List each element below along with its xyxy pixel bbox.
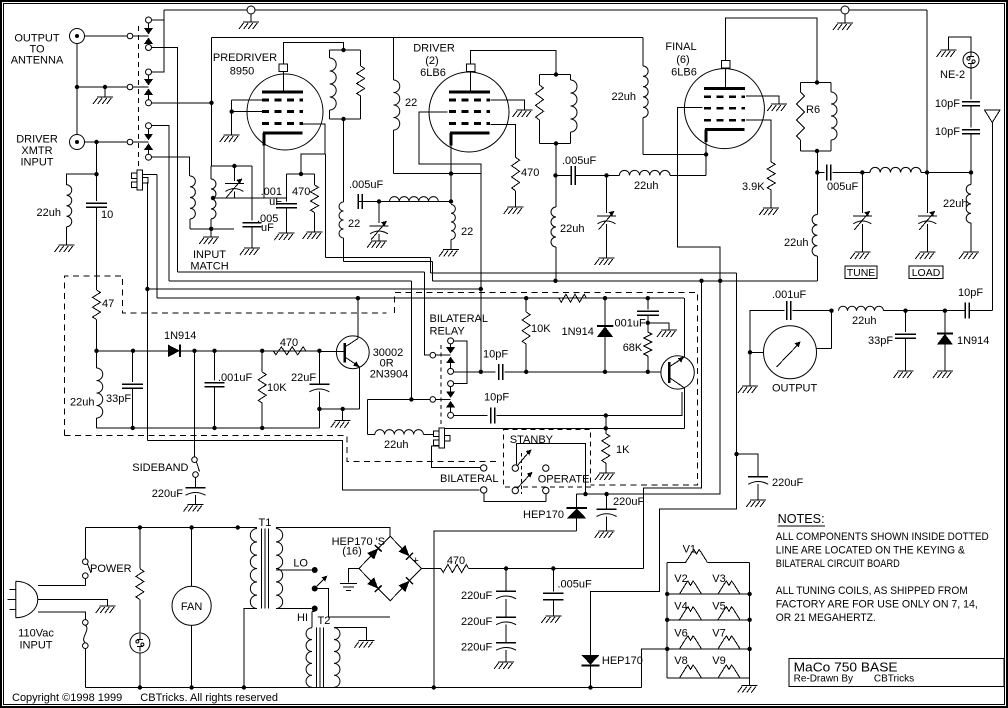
relay link dashed bbox=[440, 345, 442, 428]
relay contact set K1b bbox=[146, 69, 152, 75]
wire bus4 to relay wiper K2b bbox=[410, 281, 412, 399]
svg-text:22: 22 bbox=[461, 226, 473, 238]
wire Q2 emitter bbox=[684, 388, 686, 428]
resistor 10K keying bbox=[261, 351, 263, 372]
V row 3 rail bbox=[667, 648, 749, 650]
svg-text:.005uF: .005uF bbox=[562, 155, 597, 167]
wire predriver grid3 route bbox=[301, 124, 325, 174]
svg-text:OPERATE: OPERATE bbox=[538, 474, 590, 486]
capacitor .001uF keying bbox=[214, 351, 216, 381]
svg-text:1N914: 1N914 bbox=[957, 335, 989, 347]
ground 470 driver bbox=[504, 207, 524, 214]
inductor 22 predriver plate bbox=[339, 202, 344, 238]
bridge rectifier diamond bbox=[359, 536, 421, 601]
wire final grid3 to 3.9K bbox=[746, 120, 771, 162]
capacitor .005uF final cathode bbox=[556, 174, 571, 176]
wire antenna node to relay K1b bbox=[77, 86, 127, 88]
ground 220uF bias bbox=[595, 531, 615, 538]
inductor 22uh keying bbox=[96, 351, 98, 368]
svg-text:POWER: POWER bbox=[90, 563, 132, 575]
inductor 22uh antenna shunt bbox=[970, 173, 972, 185]
wire predriver grid pins to ground bbox=[232, 99, 264, 101]
wire final grid feed bbox=[678, 108, 721, 281]
svg-text:10pF: 10pF bbox=[958, 287, 983, 299]
wire driver plate feed bbox=[555, 144, 557, 208]
svg-text:220uF: 220uF bbox=[613, 496, 644, 508]
ground at top bus right bbox=[844, 14, 846, 23]
relay mechanical link dashed bbox=[137, 26, 139, 167]
wire K2b NO to 10pF bbox=[454, 415, 488, 417]
wire bridge plus to 470 bbox=[421, 568, 441, 570]
ground .001uF bbox=[274, 233, 294, 240]
svg-text:33pF: 33pF bbox=[106, 393, 131, 405]
wire meter plus bbox=[816, 347, 831, 349]
capacitor 220uF keying B+ bbox=[737, 454, 759, 476]
tube V final 6LB6 bbox=[684, 69, 764, 149]
capacitor .005uF driver cathode bbox=[358, 201, 451, 203]
switch standby pole b bbox=[512, 487, 518, 493]
wire keying B+ to HEP170-2 bbox=[591, 454, 737, 655]
svg-text:NE-2: NE-2 bbox=[940, 69, 965, 81]
wire emitter ground node bbox=[319, 408, 359, 410]
svg-text:.005uF: .005uF bbox=[349, 179, 384, 191]
coil V5 bbox=[718, 607, 740, 620]
wire K1a top to top bus bbox=[152, 19, 165, 21]
switch POWER bbox=[84, 528, 86, 559]
variable capacitor input match bbox=[233, 166, 235, 181]
svg-text:470: 470 bbox=[521, 167, 539, 179]
svg-text:LOAD: LOAD bbox=[912, 267, 941, 279]
ground 1N914 bbox=[933, 371, 953, 378]
variable capacitor TUNE bbox=[861, 173, 863, 214]
inductor tank coil bbox=[870, 167, 921, 172]
svg-text:6LB6: 6LB6 bbox=[671, 67, 697, 79]
inductor 22uh driver cathode bbox=[390, 197, 439, 202]
wire bilateral feed bbox=[147, 441, 479, 490]
node secondary tap bbox=[211, 196, 215, 200]
svg-text:1N914: 1N914 bbox=[164, 330, 196, 342]
wire driver plate cap to suppressor bbox=[471, 51, 557, 75]
wire B+ down to stanby bbox=[644, 281, 702, 569]
ground .005uF supply bbox=[541, 616, 561, 623]
svg-text:V1: V1 bbox=[683, 544, 696, 556]
svg-text:INPUT: INPUT bbox=[193, 249, 226, 261]
svg-text:470: 470 bbox=[447, 555, 465, 567]
capacitor 10pF K2a bbox=[499, 364, 503, 380]
wire NE-2 down bbox=[970, 68, 972, 100]
wire final bias down bbox=[577, 281, 721, 494]
ground TUNE bbox=[850, 252, 870, 259]
R6 parallel R/L bbox=[801, 82, 832, 84]
bridge diode BR bbox=[398, 581, 409, 592]
diode 1N914 clamp bbox=[604, 298, 606, 326]
coil V7 bbox=[718, 636, 740, 649]
V row 1 rail bbox=[667, 593, 749, 595]
wire heater drop to final bbox=[642, 38, 644, 67]
connector J2 driver xmtr input bbox=[70, 135, 85, 150]
capacitor 10pF K2b bbox=[491, 408, 495, 424]
wire antenna feed bbox=[991, 123, 993, 311]
diode HEP170 supply bbox=[582, 655, 600, 665]
power top rail bbox=[85, 527, 257, 529]
capacitor 33pF bbox=[905, 311, 907, 332]
transformer T2 bbox=[311, 612, 313, 628]
wire heater drop to driver bbox=[393, 38, 395, 81]
inductor 22uh final plate choke bbox=[816, 173, 818, 215]
resistor 68K bbox=[647, 323, 649, 332]
svg-text:22uh: 22uh bbox=[943, 198, 967, 210]
svg-text:+: + bbox=[413, 555, 419, 567]
V coil network frame bbox=[667, 562, 685, 564]
V row 4 rail bbox=[667, 677, 749, 679]
svg-text:BILATERAL: BILATERAL bbox=[440, 473, 499, 485]
coil V3 bbox=[718, 581, 740, 594]
parasitic suppressor predriver L/R parallel bbox=[330, 49, 361, 51]
connector J1 output to antenna bbox=[70, 29, 85, 44]
wire plug neutral to fuse bbox=[38, 612, 86, 620]
tube V driver 6LB6 bbox=[429, 72, 509, 152]
svg-text:OUTPUT: OUTPUT bbox=[772, 383, 818, 395]
meter OUTPUT bbox=[764, 326, 817, 379]
svg-text:BILATERAL CIRCUIT BOARD: BILATERAL CIRCUIT BOARD bbox=[776, 558, 900, 570]
wire final plate cap to R6 bbox=[726, 18, 817, 83]
transistor Q1 30002/2N3904 bbox=[336, 336, 369, 369]
svg-text:005uF: 005uF bbox=[827, 181, 858, 193]
wire driver cathode down bbox=[450, 133, 452, 202]
svg-text:INPUT: INPUT bbox=[20, 640, 53, 652]
svg-text:10pF: 10pF bbox=[484, 392, 509, 404]
wire K2 chain bbox=[454, 341, 467, 384]
capacitor .005uF supply bbox=[552, 569, 554, 592]
svg-text:220uF: 220uF bbox=[152, 488, 183, 500]
coil V4 bbox=[680, 607, 702, 620]
wire bus connector to driver grid bbox=[147, 288, 480, 290]
inductor 22uh output bbox=[839, 306, 884, 311]
tube V predriver 8950 bbox=[247, 74, 323, 150]
svg-text:470: 470 bbox=[280, 337, 298, 349]
wire J1 to relay contact bbox=[85, 35, 128, 37]
resistor 470 supply bbox=[441, 565, 469, 573]
lamp NE-2 bbox=[963, 52, 979, 68]
wire J1 down to J2 node bbox=[76, 44, 78, 135]
capacitor .005uF input match bbox=[251, 166, 253, 221]
inductor 22uh input bbox=[67, 174, 97, 185]
svg-text:10K: 10K bbox=[267, 382, 287, 394]
svg-text:T1: T1 bbox=[259, 517, 272, 529]
svg-text:INPUT: INPUT bbox=[21, 157, 54, 169]
svg-text:.001uF: .001uF bbox=[612, 318, 647, 330]
fan motor bbox=[191, 528, 193, 587]
variable capacitor LOAD bbox=[926, 173, 928, 214]
wire predriver plate cap to suppressor bbox=[283, 43, 343, 65]
svg-text:110Vac: 110Vac bbox=[18, 628, 54, 640]
svg-text:22uh: 22uh bbox=[560, 223, 584, 235]
wire keying bias line bbox=[526, 371, 669, 373]
wire HEP170 to bottom rail bbox=[434, 531, 577, 687]
capacitor 220uF filter 2 bbox=[496, 616, 516, 618]
wire K1c bottom to input match bbox=[152, 157, 190, 176]
resistor 47 bbox=[93, 290, 101, 320]
svg-text:1N914: 1N914 bbox=[562, 326, 594, 338]
resistor pilot dropping bbox=[139, 528, 141, 569]
coil V6 bbox=[680, 636, 702, 649]
inductor 22uh heater final bbox=[643, 66, 648, 118]
wire NE-2 to ground bbox=[949, 37, 972, 52]
svg-text:CBTricks: CBTricks bbox=[874, 674, 914, 685]
wire keying board top rail bbox=[157, 297, 684, 299]
capacitor 005uF tank bbox=[827, 165, 831, 181]
svg-text:22uh: 22uh bbox=[634, 180, 658, 192]
svg-text:NOTES:: NOTES: bbox=[778, 512, 825, 526]
svg-text:V4: V4 bbox=[674, 600, 687, 612]
wire V network feed bbox=[641, 649, 667, 688]
svg-text:TUNE: TUNE bbox=[847, 267, 876, 279]
plug 110Vac bbox=[16, 581, 38, 617]
ground 3.9K bbox=[759, 208, 779, 215]
svg-text:Copyright ©1998 1999: Copyright ©1998 1999 bbox=[12, 692, 122, 704]
resistor 1K bbox=[605, 416, 607, 434]
svg-text:V9: V9 bbox=[712, 655, 725, 667]
wire 22uF node to rail bbox=[318, 409, 320, 428]
wire J2 to relay K1c bbox=[85, 141, 128, 143]
wire supply output bbox=[469, 568, 644, 570]
wire T1 primary bottom bbox=[244, 609, 257, 688]
capacitor 33pF keying bbox=[132, 351, 134, 382]
ground 470 bbox=[303, 232, 323, 239]
svg-text:220uF: 220uF bbox=[461, 590, 492, 602]
lamp pilot bbox=[130, 633, 150, 653]
wire driver tank bus bbox=[344, 260, 433, 262]
svg-text:V7: V7 bbox=[712, 628, 725, 640]
bridge diode TR bbox=[398, 545, 409, 556]
switch link dashed bbox=[521, 453, 523, 494]
ground 22uh input bbox=[55, 245, 75, 252]
svg-text:10K: 10K bbox=[531, 323, 551, 335]
wire P2 to Q2 emitter line bbox=[445, 427, 685, 429]
coil V1 bbox=[686, 550, 708, 563]
relay contact set K1a bbox=[146, 17, 152, 23]
svg-text:8950: 8950 bbox=[230, 66, 254, 78]
label LOAD box bbox=[909, 266, 943, 279]
wire driver screen ground bbox=[491, 100, 525, 110]
wire bus relay K1c to bilateral bbox=[169, 280, 412, 282]
ground at antenna node bbox=[104, 87, 106, 97]
svg-text:PREDRIVER: PREDRIVER bbox=[213, 52, 277, 64]
wire K1b top to top bus riser bbox=[152, 10, 165, 72]
ground 22 bbox=[439, 250, 459, 257]
svg-text:(16): (16) bbox=[342, 546, 362, 558]
ground at top bus left bbox=[250, 14, 252, 22]
svg-text:1K: 1K bbox=[616, 444, 630, 456]
svg-text:47: 47 bbox=[102, 298, 114, 310]
svg-text:FACTORY ARE FOR USE ONLY ON 7,: FACTORY ARE FOR USE ONLY ON 7, 14, bbox=[776, 599, 978, 611]
wire plug ground bbox=[38, 600, 108, 607]
top ground bus bbox=[164, 9, 927, 11]
capacitor 220uF filter 1 bbox=[505, 569, 507, 592]
svg-text:33pF: 33pF bbox=[868, 335, 893, 347]
inductor 22uh bilateral bbox=[368, 434, 375, 436]
wire predriver plate feed down bbox=[343, 119, 345, 202]
variable capacitor driver cathode bbox=[377, 199, 381, 203]
wire heater line bbox=[212, 37, 644, 39]
wire K1a bottom down-left bus bbox=[152, 48, 178, 272]
svg-text:22uF: 22uF bbox=[291, 372, 316, 384]
svg-text:HEP170: HEP170 bbox=[523, 509, 564, 521]
switch SIDEBAND bbox=[192, 457, 198, 463]
wire heater to cathode node bbox=[394, 173, 481, 175]
svg-text:uF: uF bbox=[261, 222, 274, 234]
wire connector pin to keying rail riser bbox=[143, 174, 158, 176]
transistor Q2 bbox=[661, 356, 694, 389]
wire tank line bbox=[816, 151, 818, 173]
capacitor .001uF predriver bias bbox=[286, 173, 301, 175]
svg-text:22uh: 22uh bbox=[612, 91, 636, 103]
wire final cathode node bbox=[643, 154, 706, 156]
dashed box STANBY bbox=[504, 430, 591, 488]
wire Q2 collector to rail bbox=[683, 298, 685, 357]
wire grid3 bias bus down bbox=[324, 154, 326, 257]
svg-text:HI: HI bbox=[297, 612, 308, 624]
ground V network bbox=[749, 678, 751, 686]
resistor 10K bias bbox=[525, 298, 527, 312]
transformer T1 bbox=[250, 529, 257, 609]
resistor 470 driver bbox=[512, 157, 520, 190]
svg-text:V6: V6 bbox=[674, 628, 687, 640]
capacitor 220uF sideband bbox=[195, 477, 197, 487]
wire T2 primary top bbox=[312, 611, 315, 613]
svg-text:22uh: 22uh bbox=[37, 207, 61, 219]
wire T2 bottoms to rail bbox=[311, 686, 313, 688]
wire T1 secondary top to bridge bbox=[276, 528, 390, 537]
wire operate b down bbox=[545, 494, 547, 502]
keying board bottom rail bbox=[97, 427, 320, 429]
wire bilateral b to operate bbox=[484, 493, 546, 501]
capacitor 220uF filter 3 bbox=[496, 642, 516, 644]
wire keying B+ down bbox=[736, 273, 738, 454]
svg-text:V2: V2 bbox=[674, 573, 687, 585]
svg-text:HEP170: HEP170 bbox=[602, 655, 643, 667]
ground filter bank bbox=[494, 662, 514, 669]
svg-text:.001uF: .001uF bbox=[218, 372, 253, 384]
ground 33pF bbox=[894, 371, 914, 378]
tap HI bbox=[276, 608, 312, 610]
ground input match bbox=[210, 229, 212, 237]
capacitor 10 input bbox=[86, 203, 107, 207]
resistor 470 predriver bias bbox=[301, 173, 315, 175]
svg-text:(6): (6) bbox=[676, 54, 689, 66]
svg-text:6LB6: 6LB6 bbox=[420, 67, 446, 79]
connector circle bilateral b bbox=[481, 487, 487, 493]
svg-text:220uF: 220uF bbox=[461, 641, 492, 653]
selector wiper bbox=[312, 586, 318, 592]
inductor 22uh driver plate bbox=[551, 207, 556, 247]
diode 1N914 output bbox=[944, 311, 946, 333]
wire .001uF to ground bbox=[648, 323, 669, 330]
inductor 22 driver cathode shunt bbox=[451, 205, 455, 240]
bridge diode BL bbox=[367, 577, 378, 588]
board connector P2 bbox=[439, 428, 445, 448]
bridge diode TL bbox=[367, 548, 378, 559]
wire bus relay K1a to bilateral bbox=[178, 271, 425, 273]
svg-text:R6: R6 bbox=[806, 104, 820, 116]
wire 10 cap down to 47 bbox=[96, 207, 98, 290]
svg-text:LINE ARE LOCATED ON THE KEYING: LINE ARE LOCATED ON THE KEYING & bbox=[776, 545, 966, 557]
ground trimmer driver bbox=[367, 241, 387, 248]
switch standby pole a bbox=[512, 465, 518, 471]
antenna symbol bbox=[985, 110, 1001, 123]
svg-text:.001uF: .001uF bbox=[772, 289, 807, 301]
diode HEP170 bias bbox=[576, 494, 578, 508]
svg-text:SIDEBAND: SIDEBAND bbox=[132, 462, 188, 474]
wire T2 secondary top to ground bbox=[334, 628, 366, 641]
svg-text:220uF: 220uF bbox=[461, 616, 492, 628]
ground 1K bbox=[595, 473, 615, 480]
node J2 feed bbox=[96, 142, 98, 201]
transformer input match secondary bbox=[210, 166, 212, 179]
svg-text:DRIVER: DRIVER bbox=[413, 43, 455, 55]
svg-text:10pF: 10pF bbox=[483, 349, 508, 361]
wire driver grid feed bbox=[419, 112, 481, 372]
svg-text:XMTR: XMTR bbox=[21, 145, 52, 157]
wire bus3 to relay wiper bbox=[425, 272, 430, 355]
diode 1N914 keying bbox=[168, 345, 180, 357]
coil V9 bbox=[718, 665, 740, 678]
svg-text:RELAY: RELAY bbox=[430, 326, 466, 338]
wire sideband riser bbox=[194, 351, 196, 457]
svg-text:22uh: 22uh bbox=[784, 237, 808, 249]
inductor 22 heater driver bbox=[394, 80, 400, 130]
relay contact set K1c bbox=[146, 123, 152, 129]
relay wiper contact circle K1a bbox=[127, 33, 133, 39]
V network dots bbox=[665, 592, 669, 596]
ground 220uF sideband bbox=[184, 505, 204, 512]
svg-text:CBTricks. All rights reserved: CBTricks. All rights reserved bbox=[140, 692, 278, 704]
transformer input match primary bbox=[190, 176, 195, 219]
connector circle bilateral a bbox=[481, 465, 487, 471]
svg-text:ANTENNA: ANTENNA bbox=[11, 55, 64, 67]
wire 10pF K2b right bbox=[497, 392, 682, 416]
wire predriver grid riser x=211.5 bbox=[211, 38, 213, 167]
wire B+ upper bus bbox=[431, 272, 737, 274]
capacitor 10pF b bbox=[962, 130, 980, 134]
capacitor 10pF antenna coupling bbox=[965, 303, 969, 319]
wire wiper K2b to 22uh bbox=[367, 399, 369, 434]
power bottom rail bbox=[85, 687, 641, 689]
svg-text:OR 21 MEGAHERTZ.: OR 21 MEGAHERTZ. bbox=[776, 612, 876, 624]
svg-text:10: 10 bbox=[101, 209, 113, 221]
feedthrough circle on top bus left bbox=[247, 6, 255, 14]
resistor 3.9K bbox=[767, 162, 775, 190]
capacitor 22uF keying bbox=[318, 351, 320, 384]
contact OPERATE b bbox=[543, 487, 549, 493]
svg-text:2N3904: 2N3904 bbox=[370, 368, 409, 380]
svg-text:22uh: 22uh bbox=[852, 315, 876, 327]
svg-text:68K: 68K bbox=[623, 342, 643, 354]
ground .005uF input match bbox=[240, 248, 260, 255]
wire B+ main bus bbox=[433, 280, 818, 282]
relay contact set K2a bbox=[448, 338, 454, 344]
label TUNE box bbox=[845, 266, 877, 279]
ground trimmer final bbox=[595, 258, 615, 265]
title box bbox=[789, 659, 1004, 687]
wire final screen ground bbox=[746, 96, 779, 104]
svg-text:.005uF: .005uF bbox=[558, 579, 593, 591]
capacitor .001uF keying2 bbox=[647, 298, 649, 309]
tap LO bbox=[276, 569, 312, 571]
svg-text:FINAL: FINAL bbox=[665, 41, 696, 53]
input match bottom wire bbox=[190, 228, 234, 230]
svg-text:MATCH: MATCH bbox=[190, 261, 228, 273]
